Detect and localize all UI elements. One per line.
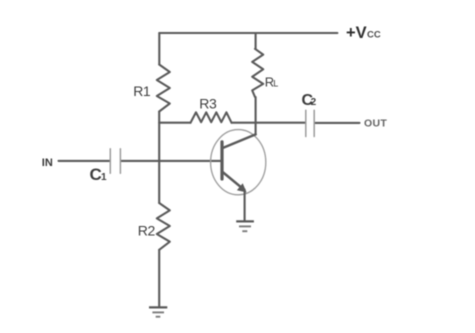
svg-text:R3: R3	[199, 96, 217, 112]
svg-text:C: C	[90, 165, 102, 184]
svg-text:L: L	[273, 79, 278, 89]
svg-text:R1: R1	[133, 83, 151, 99]
svg-text:2: 2	[311, 97, 317, 108]
svg-text:1: 1	[101, 172, 107, 183]
svg-text:+V: +V	[346, 24, 367, 42]
svg-text:OUT: OUT	[364, 117, 387, 129]
svg-text:CC: CC	[367, 30, 381, 41]
svg-text:R2: R2	[138, 222, 156, 238]
svg-text:IN: IN	[42, 157, 53, 169]
